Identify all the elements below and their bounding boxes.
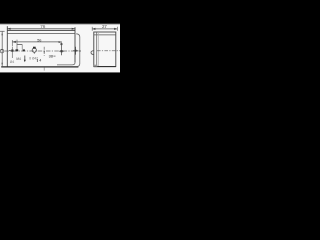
vertical centerline of part [43,47,45,56]
small dim arrows under circle [36,59,38,62]
height dim text blob circle [0,49,4,53]
terminal pin arrow [24,60,26,62]
terminal pin line [24,56,26,62]
dark dot on centerline right [23,49,25,51]
side view centerline [97,50,120,52]
case inner bottom line with rounded corner [57,63,75,65]
dark blob at dim end on hole2 line [61,43,63,45]
staple dimension top line [17,44,23,46]
svg-text:M4: M4 [16,57,21,61]
side dim right arrow [114,28,117,30]
side view inner vertical 1 [96,32,98,67]
top dimension line 76 [7,28,75,30]
circle feature lower tick [33,52,35,53]
hole 1 dark dot [11,50,13,52]
front view: centerline horizontal [5,50,79,52]
side dim extension ticks [91,27,93,31]
arrow left of dim 76 [7,28,10,30]
staple right leg [21,45,23,50]
arrow left 56 dim [12,41,15,43]
svg-text:Ø4: Ø4 [10,60,14,64]
staple left leg [16,40,18,50]
height dim arrows [1,32,3,35]
background black [0,0,120,100]
cap on height dim blob [1,49,3,51]
tick on flange edge at centerline [79,50,81,52]
case seam line [7,33,75,35]
hole cross 3 [73,47,78,55]
side view second top line [94,34,116,36]
hole 1 vertical centerline [11,47,13,58]
soft band top edge [0,23,120,26]
side dim left arrow [92,28,95,30]
tick right of 38 [53,55,55,57]
dark dot under left leg [16,49,19,51]
svg-text:38: 38 [49,54,54,59]
soft band bottom edge [0,72,120,73]
arrow right of dim 76 [72,28,75,30]
height dimension line left [1,31,3,66]
white drawing band [0,24,120,73]
tick left of 56 dim (hole1 extension) [11,40,13,46]
centerline dash left of hole 1 [9,50,11,52]
case top edge [7,30,75,32]
side view top dim line [92,28,117,30]
side view hook ear [91,51,94,55]
arrow right 56 dim [59,41,62,43]
inner dim line 56 [12,41,61,43]
height dim top tick [0,30,5,32]
case left edge [6,26,8,66]
side view bottom edge darker [94,66,116,68]
centerline tick below base [43,68,45,71]
right ear edge [76,34,80,67]
side view foot [94,65,98,67]
hole cross 2 [59,43,64,56]
svg-text:4: 4 [39,59,41,63]
side view box [94,32,116,67]
circle feature [32,48,36,52]
case right edge [74,27,76,62]
side view inner vertical 2 [97,32,99,67]
base bottom edge [1,66,78,68]
svg-text:56: 56 [37,37,42,42]
svg-text:27: 27 [102,24,107,29]
circle feature cap [33,47,36,49]
junction tick on centerline [43,51,45,53]
